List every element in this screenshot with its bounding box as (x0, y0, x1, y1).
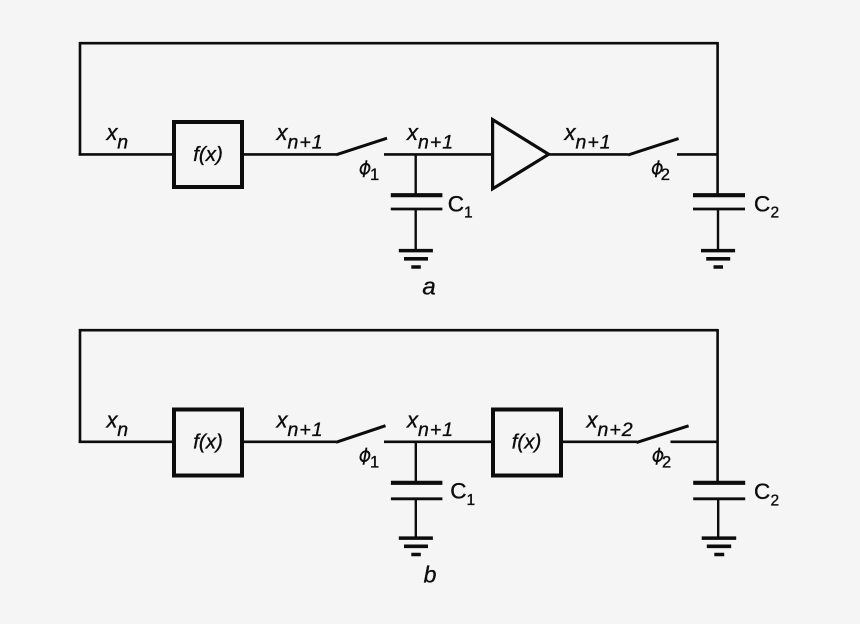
svg-text:n+1: n+1 (288, 132, 324, 154)
svg-text:n+1: n+1 (576, 132, 612, 154)
ground under C1 (circuit b) (399, 538, 433, 554)
wire switch S1 to buffer (circuit a) (384, 153, 493, 156)
wire U1 output (circuit a) (242, 153, 336, 156)
label phi2 (circuit b) (652, 448, 664, 465)
wire input x_n (circuit b) (79, 440, 173, 443)
switch S3 phi1 (circuit b) (336, 426, 386, 443)
label a (sub-figure a) (422, 274, 435, 301)
svg-text:f(x): f(x) (512, 431, 542, 454)
node label x_n+1 after U3 (circuit b) (276, 408, 324, 442)
svg-text:f(x): f(x) (193, 143, 223, 166)
wire right vertical (circuit b) (716, 329, 719, 481)
value label f(x) of U4 (512, 431, 542, 454)
node label x_n (circuit a) (106, 120, 129, 154)
block U4 f(x) (circuit b) (493, 410, 561, 476)
svg-text:n+1: n+1 (288, 419, 324, 441)
svg-text:2: 2 (661, 166, 670, 184)
switch S4 phi2 (circuit b) (637, 426, 689, 443)
wire C1 to ground (circuit a) (415, 210, 417, 251)
wire buffer output (circuit a) (548, 153, 628, 156)
wire C2 to ground (circuit b) (717, 500, 719, 538)
label b (sub-figure b) (424, 562, 437, 588)
wire C1 to ground (circuit b) (415, 500, 417, 538)
block U3 f(x) (circuit b) (174, 410, 242, 476)
wire input x_n (circuit a) (79, 153, 173, 156)
svg-text:2: 2 (771, 205, 780, 222)
wire U3 output (circuit b) (242, 440, 336, 443)
svg-text:n: n (117, 419, 128, 441)
wire U4 output (circuit b) (562, 440, 637, 443)
wire switch S4 to C2 node (circuit b) (671, 440, 718, 443)
node label x_n+1 at C1 node (circuit b) (406, 408, 454, 442)
node label x_n+1 after U1 (circuit a) (276, 120, 324, 154)
block U1 f(x) (circuit a) (174, 122, 242, 187)
svg-text:n+1: n+1 (418, 419, 454, 441)
capacitor C2 (circuit b) (693, 483, 745, 499)
svg-text:2: 2 (771, 492, 780, 509)
svg-text:1: 1 (370, 166, 379, 184)
value label C2 (circuit b) (754, 479, 779, 509)
value label C1 (circuit b) (450, 479, 475, 509)
wire feedback loop top (circuit b) (80, 330, 718, 443)
svg-text:2: 2 (662, 454, 671, 472)
node label x_n+2 after U4 (circuit b) (586, 408, 634, 442)
capacitor C1 (circuit b) (391, 483, 443, 499)
switch S2 phi2 (circuit a) (628, 139, 679, 155)
ground under C1 (circuit a) (399, 251, 433, 267)
wire switch S3 to U4 (circuit b) (384, 440, 493, 443)
value label f(x) of U3 (193, 431, 223, 454)
node label x_n+1 after buffer (circuit a) (564, 120, 612, 154)
svg-text:1: 1 (464, 205, 473, 222)
wire feedback loop top (circuit a) (80, 43, 718, 155)
value label f(x) of U1 (193, 143, 223, 166)
label phi2 (circuit a) (651, 160, 663, 177)
node label x_n+1 at C1 node (circuit a) (406, 120, 454, 154)
svg-text:b: b (424, 562, 437, 588)
svg-text:n+2: n+2 (598, 419, 634, 441)
op-amp buffer U2 (circuit a) (493, 120, 549, 189)
svg-text:C: C (448, 192, 464, 217)
value label C1 (circuit a) (448, 192, 473, 222)
svg-text:f(x): f(x) (193, 431, 223, 454)
svg-text:1: 1 (370, 453, 379, 471)
ground under C2 (circuit b) (702, 538, 737, 554)
ground under C2 (circuit a) (701, 251, 735, 267)
svg-text:C: C (450, 479, 466, 504)
svg-text:C: C (754, 192, 770, 217)
wire junction down to C1 (circuit a) (415, 154, 417, 194)
svg-text:1: 1 (467, 492, 476, 509)
wire C2 to ground (circuit a) (717, 210, 719, 251)
wire switch S2 to C2 node (circuit a) (677, 153, 718, 156)
svg-text:C: C (754, 479, 770, 504)
switch S1 phi1 (circuit a) (336, 138, 387, 155)
svg-text:n: n (117, 132, 128, 154)
svg-text:n+1: n+1 (418, 132, 454, 154)
svg-text:a: a (422, 274, 435, 301)
value label C2 (circuit a) (754, 192, 779, 222)
capacitor C1 (circuit a) (391, 195, 443, 209)
capacitor C2 (circuit a) (693, 195, 745, 209)
wire right vertical (circuit a) (716, 42, 719, 194)
node label x_n (circuit b) (106, 408, 129, 442)
label phi1 (circuit a) (359, 160, 371, 177)
label phi1 (circuit b) (359, 448, 371, 465)
wire junction down to C1 (circuit b) (415, 442, 417, 482)
